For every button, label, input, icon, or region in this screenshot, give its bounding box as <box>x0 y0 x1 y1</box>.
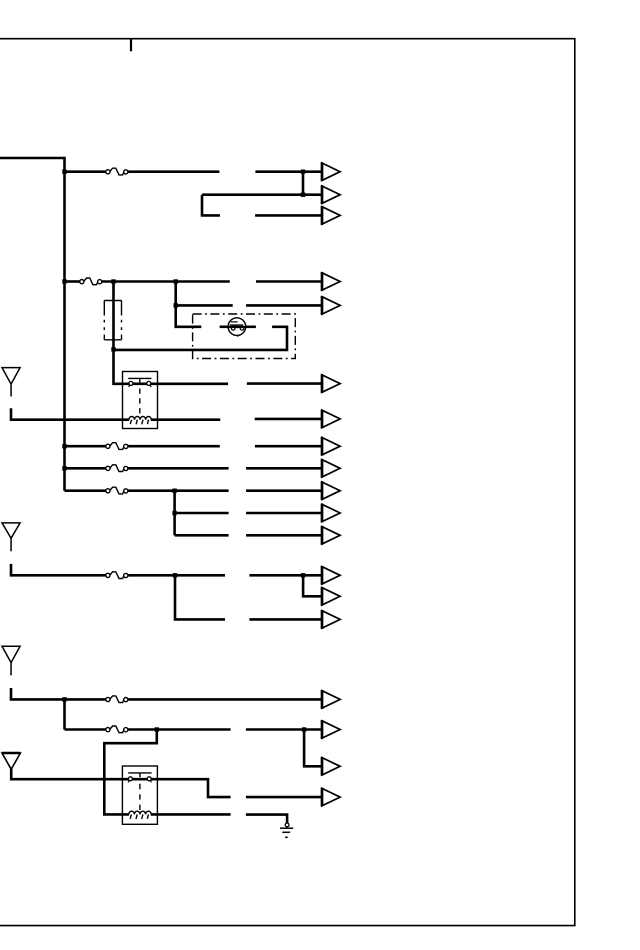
wire: row7 resumed <box>246 467 322 470</box>
relay R1 <box>123 372 158 429</box>
node: junction row14 x304 <box>302 727 306 731</box>
wire: battery feed from left edge <box>0 157 65 160</box>
wire: antenna3 row to fuse <box>11 688 106 699</box>
relay R2 coil wire <box>122 813 157 816</box>
node: junction row8 x174.6 <box>172 489 176 493</box>
node: junction row2 x303 <box>301 193 305 197</box>
illumination unit box (dash-dot) <box>193 314 296 359</box>
connector arrow 18 <box>322 757 340 776</box>
relay R1 contact points <box>129 381 133 385</box>
wire: relay R2 contact out with jog <box>157 779 230 797</box>
connector arrow 2 <box>322 185 340 204</box>
wire: row3 resumed to connector <box>255 214 322 217</box>
wire: coil out resumed to ground <box>246 815 287 823</box>
bulb L1 <box>228 318 246 337</box>
relay R2 <box>122 766 157 824</box>
connector arrow 1 <box>322 162 340 181</box>
connector arrow 13 <box>322 566 340 585</box>
wire: antenna1 to relay R1 coil <box>11 408 123 420</box>
wire: bulb out to break <box>245 325 256 328</box>
wire: relay R2 coil out <box>157 813 230 816</box>
relay R1 contact wire <box>123 382 158 385</box>
wire: drop row8 to row10 <box>173 491 176 536</box>
wire: drop to bulb feed <box>176 282 202 327</box>
node: junction row1 at bus <box>62 170 66 174</box>
node: junction row9 <box>172 511 176 515</box>
relay R2 contact wire <box>122 778 157 781</box>
wire: row15 resumed <box>246 796 322 799</box>
connector arrow 5 <box>322 296 340 315</box>
wire: link row1 to row2 <box>302 172 305 195</box>
antenna 4 <box>2 753 21 769</box>
wire: row6 fuse to break <box>128 445 220 448</box>
wire: row2 U loop <box>202 195 220 216</box>
node: junction row14 x156.8 <box>155 727 159 731</box>
ground <box>280 823 293 837</box>
connector arrow 14 <box>322 587 340 606</box>
wire: row10 to break <box>175 534 229 537</box>
connector arrow 4 <box>322 272 340 291</box>
wire: relay R2 coil feed <box>104 730 157 815</box>
wire: row11 fuse to break <box>128 574 225 577</box>
node: junction row5 <box>174 303 178 307</box>
wire: bulb return loop <box>114 327 288 350</box>
connector arrow 6 <box>322 374 340 393</box>
connector arrow 3 <box>322 206 340 225</box>
wire: main bus vertical <box>63 157 66 491</box>
node: junction row13 at x64.5 <box>62 697 66 701</box>
connector arrow 19 <box>322 788 340 807</box>
node: junction row11 x175 <box>173 573 177 577</box>
wire: relay coil resumed <box>255 418 322 421</box>
wire: row14 fuse to break <box>128 728 231 731</box>
connector arrow 10 <box>322 481 340 500</box>
fuse F8 <box>106 726 128 733</box>
wire: row6 bus to fuse <box>65 445 107 448</box>
wire: row8 resumed <box>246 489 322 492</box>
wire: drop to relay R1 contact <box>114 282 123 384</box>
node: junction row6 at bus <box>62 444 66 448</box>
wire: row5 resumed to connector <box>246 304 322 307</box>
wire: drop row13 to row14 <box>63 699 66 729</box>
wire: row10 resumed <box>246 534 322 537</box>
antenna 2 <box>2 523 20 551</box>
relay R2 link (dashed) <box>139 784 141 814</box>
relay R2 coil <box>129 811 151 819</box>
wire: row4 resumed to connector <box>256 280 322 283</box>
wire: row2 <box>202 193 322 196</box>
relay R1 coil wire <box>123 418 158 421</box>
node: junction row7 at bus <box>62 466 66 470</box>
node: junction row1 x303 <box>301 170 305 174</box>
connector arrow 9 <box>322 459 340 478</box>
antenna 3 <box>2 646 20 675</box>
node: junction row4 x175.7 <box>174 279 178 283</box>
wire: relay contact resumed <box>247 382 322 385</box>
wire: row1 resumed to connector <box>255 170 321 173</box>
fuse F5 <box>106 487 128 494</box>
relay R1 coil <box>129 417 151 425</box>
wire: relay coil out <box>158 418 221 421</box>
connector arrow 16 <box>322 690 340 709</box>
relay R1 contact bar <box>128 378 151 382</box>
fuse F6 <box>106 572 128 579</box>
wire: row12 resumed <box>249 618 321 621</box>
connector arrow 8 <box>322 437 340 456</box>
connector arrow 11 <box>322 504 340 523</box>
connector arrow 15 <box>322 610 340 629</box>
wire: row7 bus to fuse <box>65 467 107 470</box>
wire: antenna4 to relay R2 contact <box>11 768 122 779</box>
node: junction row4 x113.5 <box>111 279 115 283</box>
connector arrow 12 <box>322 526 340 545</box>
wire: row1 fuse to break <box>128 170 219 173</box>
wire: bulb feed resumed <box>220 325 229 328</box>
node: junction bulb return <box>111 347 115 351</box>
wire: row5 to break <box>176 304 233 307</box>
wire: row8 bus corner to fuse <box>65 489 107 492</box>
wire: row8 fuse to break <box>128 489 229 492</box>
wire: row4 bus to fuse <box>65 280 80 283</box>
fusible link box (dashed) <box>104 301 121 340</box>
wire: row7 fuse to break <box>128 467 229 470</box>
wire: row11 resumed <box>249 574 321 577</box>
wire: branch to connector 18 <box>304 730 322 767</box>
relay R1 link (dashed) <box>139 389 141 416</box>
wire: row6 resumed <box>255 445 322 448</box>
wire: row9 to break <box>175 512 229 515</box>
node: junction row11 x303 <box>301 573 305 577</box>
wire: row4 fuse to break <box>102 280 230 283</box>
wire: row14 resumed <box>246 728 322 731</box>
wire: row13 fuse to connector <box>128 698 322 701</box>
wire: branch to connector 14 <box>303 575 322 596</box>
fuse F1 <box>106 168 128 175</box>
fuse F7 <box>106 696 128 703</box>
relay R2 contact bar <box>128 773 151 777</box>
connector arrow 7 <box>322 410 340 429</box>
wire: relay contact out <box>158 382 229 385</box>
fuse F2 <box>80 278 102 285</box>
connector arrow 17 <box>322 720 340 739</box>
relay R2 contact points <box>128 777 132 781</box>
node: junction row4 at bus <box>62 279 66 283</box>
wire: row14 to fuse <box>65 728 107 731</box>
wire: antenna2 row to fuse <box>11 564 106 575</box>
wire: row9 resumed <box>246 512 322 515</box>
wire: row1 bus to fuse <box>65 170 107 173</box>
fuse F4 <box>106 465 128 472</box>
fuse F3 <box>106 443 128 450</box>
wire: drop row11 to row12 <box>175 575 225 619</box>
antenna 1 <box>2 368 20 397</box>
